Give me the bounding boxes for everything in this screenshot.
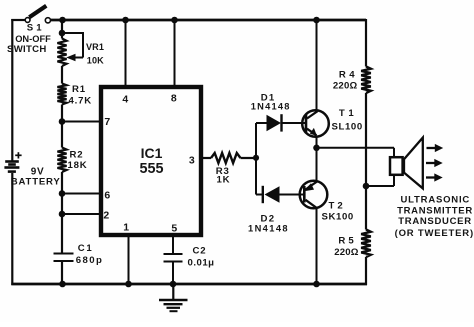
node pin2 junction: [59, 211, 66, 218]
svg-text:VR1: VR1: [86, 42, 104, 52]
wire T2 collector to ground rail: [316, 208, 318, 284]
node speaker return junction: [363, 183, 370, 190]
wire R2 to C1: [61, 172, 63, 254]
svg-text:4: 4: [122, 93, 128, 105]
svg-text:ULTRASONIC: ULTRASONIC: [401, 195, 471, 206]
wire C1 to ground rail: [61, 261, 63, 284]
battery B1 9V: [4, 152, 21, 171]
wire pin 3 stub: [201, 157, 211, 159]
speaker LS1 driver box: [390, 157, 403, 175]
svg-text:18K: 18K: [68, 160, 88, 171]
resistor R3 1K body: [211, 153, 241, 163]
svg-text:7: 7: [104, 116, 110, 128]
wire left rail bottom segment: [11, 173, 13, 285]
node T2 ground junction: [313, 281, 320, 288]
node pin7 junction: [59, 118, 66, 125]
svg-text:R 4: R 4: [339, 69, 355, 80]
svg-text:T 2: T 2: [329, 201, 343, 212]
node T1 collector rail junction: [313, 17, 320, 24]
speaker radiation arrow 3: [426, 173, 443, 181]
speaker radiation arrow 2: [426, 159, 443, 167]
wire junction to pin 7: [62, 121, 100, 123]
transistor T2 SK100: [300, 181, 328, 209]
diode D2 1N4148: [263, 186, 280, 203]
switch S1 blade: [29, 6, 46, 17]
svg-text:ON-OFF: ON-OFF: [15, 34, 51, 44]
svg-text:S 1: S 1: [27, 22, 42, 33]
switch S1 right terminal: [45, 18, 50, 23]
svg-text:R 5: R 5: [338, 235, 354, 246]
wire T1 emitter to output node: [316, 137, 318, 150]
wire D1 to T1 base: [282, 122, 305, 124]
wire C2 to ground rail: [172, 262, 174, 285]
VR1 wiper arm: [62, 32, 83, 61]
svg-text:8: 8: [171, 92, 177, 104]
ground symbol: [159, 284, 188, 311]
svg-text:220Ω: 220Ω: [334, 247, 359, 258]
svg-text:SK100: SK100: [322, 211, 354, 222]
svg-text:BATTERY: BATTERY: [11, 177, 61, 188]
wire R5 to ground rail: [365, 257, 367, 285]
svg-text:4.7K: 4.7K: [69, 95, 92, 106]
wire VR1 to R1: [61, 66, 63, 84]
node diode branch junction: [253, 155, 259, 161]
wire R1 to R2: [61, 105, 63, 148]
node pin4 rail junction: [122, 17, 129, 24]
wire pin 1 to ground rail: [128, 235, 130, 284]
wire T1 collector to rail: [316, 20, 318, 111]
node VR1 wiper tap: [59, 30, 66, 37]
wire T2 emitter to output node: [316, 148, 318, 182]
svg-text:3: 3: [189, 154, 195, 166]
svg-text:5: 5: [171, 222, 177, 234]
wire rail to VR1: [61, 19, 63, 39]
node C2 ground junction: [170, 281, 177, 288]
wire pin 5 to C2: [172, 235, 174, 254]
svg-text:220Ω: 220Ω: [333, 80, 358, 91]
speaker radiation arrow 1: [427, 144, 444, 152]
capacitor C2 0.01u plates: [164, 254, 183, 262]
node C1 ground junction: [59, 281, 66, 288]
svg-text:R2: R2: [70, 149, 84, 160]
wire bottom ground rail: [11, 283, 367, 286]
wire node to D2: [256, 194, 262, 196]
wire junction to pin 2: [62, 213, 100, 215]
wire top supply rail: [50, 19, 367, 22]
svg-text:1: 1: [123, 221, 129, 233]
capacitor C1 680p plates: [54, 254, 74, 262]
wire pin 8 to rail: [174, 20, 176, 87]
node pin1 ground junction: [125, 281, 132, 288]
wire node to D1: [256, 122, 267, 124]
svg-text:TRANSMITTER: TRANSMITTER: [397, 205, 473, 216]
svg-text:680p: 680p: [76, 255, 103, 266]
svg-text:T 1: T 1: [339, 108, 355, 119]
svg-text:6: 6: [104, 189, 110, 201]
wire rail to R4: [365, 19, 367, 67]
svg-text:TRANSDUCER: TRANSDUCER: [398, 216, 472, 227]
svg-text:C1: C1: [78, 243, 93, 254]
resistor R2 18K body: [57, 148, 66, 173]
node pin8 rail junction: [171, 17, 178, 24]
svg-text:1N4148: 1N4148: [248, 224, 289, 234]
svg-text:1K: 1K: [217, 175, 231, 186]
svg-text:555: 555: [139, 161, 163, 177]
diode D1 1N4148: [267, 114, 282, 131]
transistor T1 SL100: [302, 110, 329, 137]
svg-text:C2: C2: [193, 245, 207, 256]
wire output node to speaker top: [317, 148, 395, 157]
wire diode branch vertical: [255, 123, 257, 195]
potentiometer VR1 10K body: [57, 39, 66, 67]
resistor R1 4.7K body: [57, 84, 66, 105]
wire D2 to T2 base: [280, 194, 304, 196]
resistor R4 220ohm body: [361, 67, 371, 94]
speaker LS1 horn: [404, 138, 423, 189]
svg-text:2: 2: [103, 209, 109, 221]
svg-text:0.01μ: 0.01μ: [188, 257, 215, 268]
resistor R5 220ohm body: [361, 230, 371, 258]
svg-text:SWITCH: SWITCH: [7, 44, 47, 55]
svg-text:1N4148: 1N4148: [251, 101, 291, 111]
wire junction to pin 6: [62, 193, 100, 195]
svg-text:IC1: IC1: [141, 145, 163, 161]
node output junction: [313, 145, 320, 152]
wire pin 4 to rail: [125, 20, 127, 87]
node supply tap: [59, 17, 66, 24]
wire left rail top segment: [11, 19, 26, 161]
wire R4 to speaker node: [365, 93, 367, 230]
svg-text:(OR TWEETER): (OR TWEETER): [395, 228, 474, 239]
svg-text:R1: R1: [72, 84, 86, 95]
node pin6 junction: [59, 190, 66, 197]
svg-text:SL100: SL100: [332, 121, 363, 132]
wire R3 to diode node: [241, 157, 258, 159]
svg-text:10K: 10K: [87, 56, 104, 66]
switch S1 left terminal: [25, 18, 30, 23]
op-amp IC1 555 timer box: [101, 87, 201, 235]
wire speaker return: [366, 175, 394, 186]
